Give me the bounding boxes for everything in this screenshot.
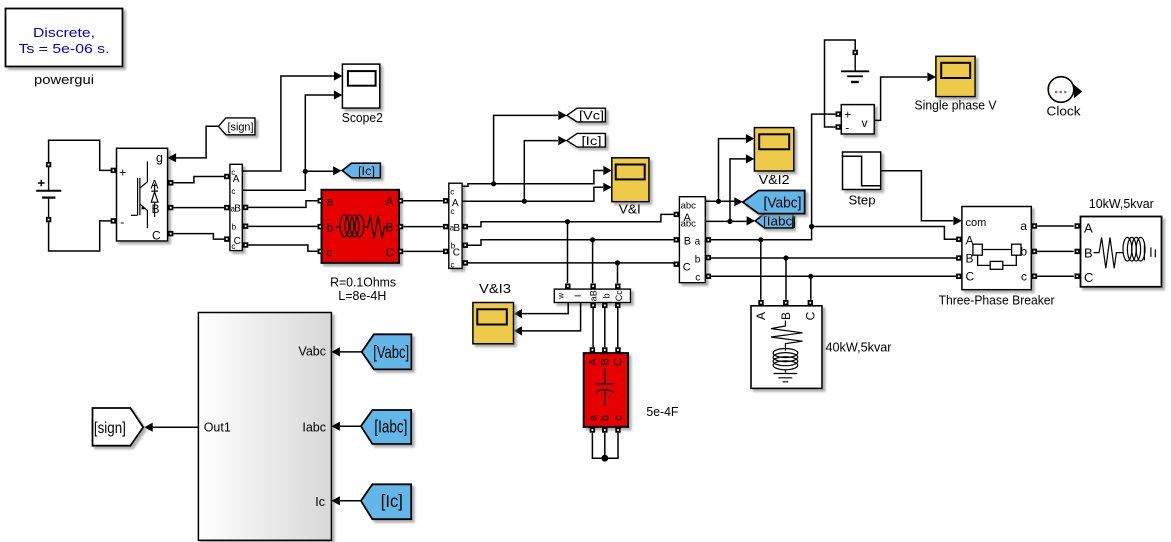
wire M3 b to breaker B (phase b) (711, 257, 956, 259)
svg-text:I: I (573, 295, 583, 298)
svg-text:a: a (327, 194, 334, 208)
M1 c port (243, 242, 248, 247)
wire breaker a to 10kW A (1037, 225, 1074, 227)
svg-text:powergui: powergui (34, 72, 94, 87)
svg-text:aB: aB (589, 290, 599, 301)
40kW load RLC icon (rotated) (771, 321, 803, 382)
wire phase a to voltage measurement + (812, 114, 836, 226)
svg-text:c: c (451, 260, 455, 269)
junction Vc (491, 181, 496, 186)
40kW B port (783, 300, 788, 305)
M2 b port (463, 243, 468, 248)
wire M3 Vabc to goto Vabc (705, 200, 734, 202)
svg-text:5e-4F: 5e-4F (646, 404, 678, 419)
M2 A port (443, 198, 448, 203)
40kW,5kvar three-phase load (rotated) (751, 306, 822, 389)
breaker a port (1032, 223, 1037, 228)
svg-text:c: c (613, 415, 625, 421)
junction phase c tap (808, 274, 813, 279)
subsystem Ic input arrow (331, 496, 340, 505)
svg-text:10kW,5kvar: 10kW,5kvar (1089, 196, 1155, 211)
M4 a port (bottom) (590, 303, 595, 308)
svg-text:g: g (156, 151, 163, 165)
voltmeter + port (836, 111, 841, 116)
wire M3 Iabc to goto Iabc (705, 220, 746, 222)
tap wire 3 down to M4 (617, 263, 619, 283)
three-phase series RL branch (red) (322, 190, 400, 263)
svg-text:V&I3: V&I3 (479, 281, 511, 296)
From tag Ic (blue, bottom) (361, 484, 411, 519)
svg-text:C: C (966, 270, 975, 284)
wire M4 Vabc to V&I3 input1 (522, 303, 569, 314)
svg-text:Ts = 5e-06 s.: Ts = 5e-06 s. (19, 41, 110, 56)
voltage measurement block U2 (841, 105, 874, 135)
svg-text:c: c (695, 273, 700, 284)
wire M3 c to breaker C (phase c) (711, 275, 956, 277)
RL b port (318, 224, 323, 229)
wire M1 b to RL b (248, 225, 317, 227)
10kW A port (1075, 223, 1080, 228)
breaker b port (1032, 249, 1037, 254)
From tag Iabc (blue, bottom) (361, 410, 411, 444)
battery - port (46, 217, 51, 222)
svg-text:A: A (754, 312, 768, 320)
capacitor A port (590, 347, 595, 352)
10kW B port (1075, 249, 1080, 254)
M3 b port (706, 255, 711, 260)
svg-text:a: a (587, 414, 599, 421)
svg-text:C: C (803, 311, 817, 320)
svg-text:[Vabc]: [Vabc] (373, 342, 409, 362)
wire M3 a to breaker A (phase a) (711, 227, 956, 240)
wire converter B to measure1 B (174, 207, 225, 209)
junction phase a tap (758, 237, 763, 242)
From tag Vabc (blue, bottom) (362, 334, 412, 369)
svg-text:Step: Step (849, 193, 876, 208)
breaker C port (956, 274, 961, 279)
svg-text:V&I2: V&I2 (759, 172, 790, 187)
M2 C port (443, 249, 448, 254)
svg-text:Three-Phase Breaker: Three-Phase Breaker (939, 293, 1056, 308)
svg-text:[Iabc]: [Iabc] (763, 214, 796, 228)
svg-text:B: B (152, 202, 160, 216)
converter + port (111, 168, 116, 173)
Clock block (1048, 77, 1074, 103)
svg-text:L=8e-4H: L=8e-4H (338, 288, 386, 303)
wire M2 c to M3 C (phase line 3) (468, 263, 674, 264)
10kW,5kvar three-phase load (1081, 217, 1162, 287)
RL C port (398, 249, 403, 254)
three-phase V-I measurement block M1 (230, 164, 242, 251)
RL a port (318, 198, 323, 203)
neutral junction (601, 455, 608, 462)
ground symbol (841, 55, 869, 82)
Goto tag Vabc (blue, middle) (743, 191, 805, 214)
svg-text:b: b (232, 223, 237, 232)
svg-text:B: B (453, 223, 460, 234)
wire M2 Vabc to V&I scope input1 (462, 171, 603, 187)
M2 B port (443, 224, 448, 229)
junction tap3 (615, 260, 620, 265)
svg-text:a: a (1020, 219, 1027, 233)
wire Out1 to goto sign (153, 426, 199, 428)
svg-text:Clock: Clock (1047, 104, 1082, 119)
M4 A port (top) (565, 284, 570, 289)
converter IGBT icon (131, 162, 158, 229)
converter - port (111, 218, 116, 223)
M1 C port (224, 236, 229, 241)
svg-text:b: b (695, 255, 701, 266)
svg-text:B: B (684, 236, 691, 248)
wire battery+ to converter+ (49, 140, 111, 170)
RL A port (398, 198, 403, 203)
V&I2 scope block (754, 128, 793, 171)
svg-text:Ic: Ic (315, 495, 325, 509)
M4 c port (bottom) (615, 303, 620, 308)
M2 a port (463, 224, 468, 229)
capacitor C port (615, 347, 620, 352)
wire junction to goto Ic (305, 170, 333, 172)
svg-text:[Ic]: [Ic] (381, 491, 403, 511)
three-phase V-I measurement block M4 (rotated) (554, 289, 630, 302)
10kW C port (1075, 274, 1080, 279)
M3 B port (674, 237, 679, 242)
Goto tag sign (bottom) (93, 408, 144, 446)
junction on Iabc wire (303, 169, 308, 174)
DC voltage source battery (36, 167, 61, 217)
wire RL B to M2 B (403, 226, 443, 228)
svg-text:Discrete,: Discrete, (33, 25, 95, 40)
junction Ic2 (522, 199, 527, 204)
capacitor B port (602, 347, 607, 352)
wire sign tag to converter g input (176, 126, 218, 158)
svg-text:-: - (120, 215, 124, 229)
neutral wires below capacitor (592, 433, 618, 458)
converter B port (168, 205, 173, 210)
tap wire 1 down to M4 (567, 222, 569, 284)
M4 b port (bottom) (602, 303, 607, 308)
breaker A port (956, 237, 961, 242)
svg-text:+: + (119, 166, 126, 180)
svg-text:abc: abc (681, 200, 697, 211)
svg-text:C: C (152, 229, 161, 243)
svg-text:C: C (1084, 270, 1093, 285)
40kW A port (758, 300, 763, 305)
svg-text:[sign]: [sign] (94, 420, 126, 437)
svg-text:[Iabc]: [Iabc] (374, 417, 407, 437)
wire battery- to converter- (49, 221, 111, 251)
subsystem Vabc input arrow (331, 347, 340, 356)
svg-text:[Vc]: [Vc] (579, 111, 604, 123)
Scope2 block (342, 64, 379, 108)
wire ground to voltmeter - (825, 40, 856, 127)
svg-text:40kW,5kvar: 40kW,5kvar (826, 340, 893, 355)
wire M2 b to M3 B (phase line 2) (468, 240, 674, 245)
svg-text:a: a (695, 236, 701, 247)
svg-text:c: c (327, 245, 333, 259)
junction tap2 (590, 237, 595, 242)
40kW C port (808, 300, 813, 305)
svg-text:B: B (779, 312, 793, 320)
wire converter A to measure1 A (174, 177, 225, 183)
M1 B port (224, 205, 229, 210)
wire breaker b to 10kW B (1037, 250, 1074, 252)
svg-text:c: c (231, 187, 235, 196)
three-phase V-I measurement block M3 (679, 197, 705, 284)
Goto tag Ic (white) (567, 133, 606, 147)
capacitor a port (590, 427, 595, 432)
svg-text:[Vabc]: [Vabc] (764, 195, 802, 211)
M1 b port (243, 224, 248, 229)
wire M4 c to capacitor C (617, 308, 619, 347)
wire M2 Iabc to V&I scope input2 (462, 187, 603, 201)
svg-text:A: A (233, 174, 240, 185)
wire M4 Iabc to V&I3 input2 (522, 303, 581, 331)
svg-text:b: b (599, 415, 611, 421)
svg-text:B: B (599, 358, 611, 365)
converter U1 (universal bridge IGBT/diode) (117, 148, 168, 242)
wire converter C to measure1 C (174, 234, 225, 240)
Single phase V scope block (936, 56, 975, 96)
breaker relay icon (973, 244, 1021, 269)
wire M1 Iabc to Scope2 input2 (242, 95, 334, 190)
wire M4 a to capacitor A (592, 308, 594, 347)
tap wire phase b down to 40kW load (785, 258, 787, 300)
junction phase b tap (783, 255, 788, 260)
Goto tag sign (top) (218, 118, 255, 135)
svg-text:[Ic]: [Ic] (358, 164, 375, 178)
svg-text:C: C (683, 262, 691, 274)
V&I3 scope block (473, 303, 514, 344)
svg-text:c: c (1021, 269, 1027, 283)
wire junction up to V&I2 input1 (719, 139, 746, 202)
ground port (853, 50, 858, 55)
junction Iabc (727, 219, 732, 224)
Goto tag Ic (blue, top) (342, 163, 380, 178)
svg-text:Scope2: Scope2 (342, 110, 383, 125)
tap wire 2 down to M4 (592, 240, 594, 283)
wire breaker c to 10kW C (1037, 275, 1074, 277)
svg-text:com: com (966, 217, 987, 229)
breaker c port (1032, 274, 1037, 279)
M2 c port (463, 260, 468, 265)
junction tap1 (565, 219, 570, 224)
svg-text:C: C (386, 245, 395, 259)
svg-text:C: C (613, 358, 625, 366)
wire M1 a to RL a (248, 201, 317, 208)
svg-text:b: b (602, 293, 612, 298)
Goto tag Vc (567, 108, 606, 122)
tap wire phase a down to 40kW load (760, 240, 762, 300)
junction phase a / voltmeter (809, 224, 814, 229)
capacitor icon (596, 368, 615, 406)
wire junction to goto Ic tag (524, 141, 558, 202)
10kW load RLC icon (1094, 237, 1156, 268)
svg-text:Cc: Cc (614, 290, 624, 301)
svg-text:Vabc: Vabc (298, 345, 326, 359)
RL c port (318, 249, 323, 254)
wire RL A to M2 A (403, 200, 443, 202)
three-phase series C branch 5e-4F (red, rotated) (584, 353, 628, 427)
svg-text:A: A (587, 358, 599, 366)
M1 A port (224, 174, 229, 179)
M3 a port (706, 237, 711, 242)
M4 C port (top) (615, 284, 620, 289)
Clock output port arrow (1074, 85, 1082, 98)
svg-text:Single phase V: Single phase V (915, 98, 997, 113)
svg-text:-: - (845, 121, 849, 135)
svg-text:[sign]: [sign] (228, 122, 254, 134)
battery + port (46, 162, 51, 167)
breaker B port (956, 255, 961, 260)
V&I scope block (612, 158, 649, 202)
svg-text:A: A (386, 194, 394, 208)
svg-text:+: + (844, 107, 851, 121)
wire M1 Vabc to Scope2 input1 (242, 76, 334, 171)
wire from tag Ic to subsystem (340, 500, 361, 502)
M3 A port (674, 212, 679, 217)
svg-text:A: A (1084, 220, 1093, 235)
converter C port (168, 231, 173, 236)
svg-text:b: b (327, 220, 334, 234)
tap wire phase c down to 40kW load (810, 276, 812, 300)
M4 B port (top) (590, 284, 595, 289)
capacitor b port (602, 427, 607, 432)
voltmeter - port (836, 124, 841, 129)
wire Step to breaker com (881, 171, 954, 221)
junction Vabc (716, 199, 721, 204)
RL B port (398, 224, 403, 229)
svg-text:B: B (1084, 246, 1093, 261)
wire M4 b to capacitor B (604, 308, 606, 347)
Step block (843, 152, 881, 190)
powergui block (6, 9, 123, 67)
wire from tag Iabc to subsystem (340, 425, 361, 427)
svg-text:B: B (234, 204, 241, 215)
svg-text:Out1: Out1 (204, 420, 231, 434)
svg-text:v: v (862, 116, 868, 130)
three-phase V-I measurement block M2 (449, 183, 462, 269)
svg-text:c: c (451, 207, 455, 216)
svg-text:[Ic]: [Ic] (582, 136, 602, 148)
converter A port (168, 180, 173, 185)
svg-text:Iabc: Iabc (302, 420, 326, 434)
wire M2 a to M3 A (phase line 1) (468, 214, 674, 226)
M1 a port (243, 205, 248, 210)
svg-text:c: c (450, 188, 454, 197)
svg-text:C: C (453, 247, 460, 258)
arrowhead into g (168, 153, 177, 162)
wire junction up to V&I2 input2 (730, 159, 746, 222)
svg-text:w: w (557, 293, 566, 300)
RL branch icon (inductor + resistor) (336, 215, 391, 239)
wire from tag Vabc to subsystem (340, 351, 362, 353)
Goto tag Iabc (blue, middle) (755, 214, 796, 229)
three-phase breaker block (962, 207, 1031, 290)
subsystem block (198, 313, 331, 541)
wire M1 c to RL c (248, 245, 317, 251)
wire voltmeter v output to Single phase V scope (874, 77, 927, 120)
svg-text:V&I: V&I (619, 202, 641, 217)
M3 c port (706, 274, 711, 279)
subsystem Iabc input arrow (331, 422, 340, 431)
wire RL C to M2 C (403, 250, 443, 252)
M3 C port (674, 262, 679, 267)
svg-text:c: c (231, 242, 235, 251)
wire junction to goto Vc tag (494, 115, 558, 183)
svg-text:abc: abc (681, 219, 697, 230)
capacitor c port (615, 427, 620, 432)
